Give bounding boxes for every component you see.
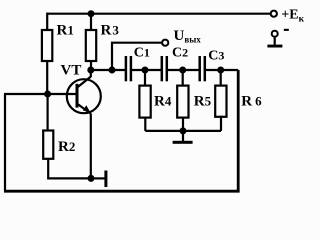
node C1-R4 xyxy=(142,67,149,74)
svg-text:R4: R4 xyxy=(154,93,172,109)
terminal +Ek xyxy=(271,11,277,17)
ground emitter xyxy=(91,171,107,188)
wire feedback bottom xyxy=(4,190,240,193)
resistor R6 xyxy=(215,86,226,117)
resistor R1 xyxy=(42,30,52,61)
wire base lead xyxy=(4,93,77,95)
node ground link xyxy=(180,127,187,134)
wire C2 to C3 xyxy=(167,69,200,71)
wire collector lead xyxy=(90,70,92,77)
node C3-R6 xyxy=(217,67,224,74)
resistor R3 xyxy=(86,30,96,61)
node base xyxy=(44,91,51,98)
wire R1 top lead xyxy=(46,13,48,31)
node collector xyxy=(87,67,94,74)
wire R2 top lead xyxy=(46,94,48,131)
wire R5 bottom lead xyxy=(182,117,184,131)
wire feedback right riser xyxy=(237,70,240,191)
svg-text:R3: R3 xyxy=(101,23,120,39)
svg-text:C2: C2 xyxy=(172,46,188,61)
resistor R4 xyxy=(139,86,150,118)
svg-text:VT: VT xyxy=(61,63,82,79)
svg-text:C1: C1 xyxy=(134,46,150,61)
capacitor C1 xyxy=(126,56,131,81)
wire R4 bottom lead xyxy=(144,117,146,131)
capacitor C3 xyxy=(200,56,205,81)
wire feedback left riser xyxy=(4,94,6,191)
capacitor C2 xyxy=(162,56,167,81)
wire R6 bottom lead xyxy=(220,116,222,131)
wire R5 top lead xyxy=(182,70,184,87)
wire collector to C1 xyxy=(91,69,126,71)
transistor VT xyxy=(67,77,101,114)
wire R6 top lead xyxy=(220,70,222,87)
svg-text:R2: R2 xyxy=(58,139,75,155)
ground RC network xyxy=(173,131,193,144)
wire R3 top lead xyxy=(90,14,92,31)
node C2-R5 xyxy=(179,67,186,74)
svg-text:R6: R6 xyxy=(241,93,262,109)
wire emitter lead xyxy=(90,114,92,179)
wire top supply rail xyxy=(47,13,271,15)
node output tap xyxy=(109,67,116,74)
terminal minus xyxy=(267,29,288,48)
svg-text:R1: R1 xyxy=(57,23,74,39)
wire output riser xyxy=(112,43,162,70)
wire C3 to feedback corner xyxy=(205,69,238,71)
wire R4 top lead xyxy=(144,70,146,87)
wire C1 to C2 xyxy=(131,69,162,71)
wire R3 bottom lead xyxy=(90,60,92,70)
wire R2 bottom lead xyxy=(48,158,91,178)
wire ground link R4-R5-R6 xyxy=(145,130,221,132)
terminal Uout xyxy=(162,40,168,46)
node rail-R3 junction xyxy=(88,10,95,17)
node emitter xyxy=(88,175,95,182)
resistor R5 xyxy=(177,86,188,118)
svg-text:C3: C3 xyxy=(208,48,224,63)
wire R1 bottom lead xyxy=(46,60,48,94)
resistor R2 xyxy=(43,131,53,159)
svg-text:R5: R5 xyxy=(194,93,212,109)
